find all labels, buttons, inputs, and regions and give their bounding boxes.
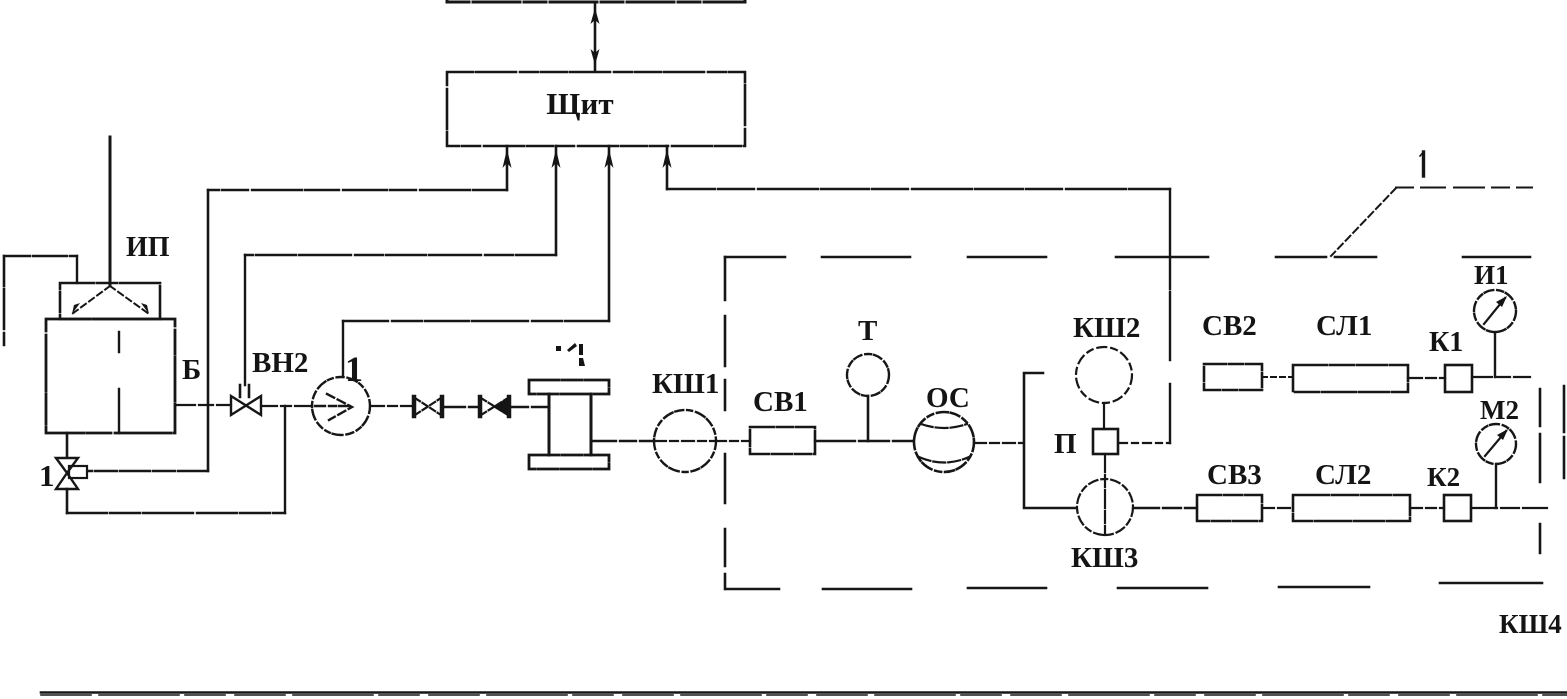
gauge М2 <box>1476 424 1516 508</box>
valve К1 <box>1445 365 1472 392</box>
svg-text:СЛ2: СЛ2 <box>1315 459 1371 491</box>
label 1 with leader (enclosure) <box>1331 152 1532 256</box>
svg-text:СВ1: СВ1 <box>753 386 808 418</box>
wire П to enclosure wire <box>1119 442 1170 444</box>
switch П <box>1093 429 1118 454</box>
shut-off valve V2 <box>480 397 509 416</box>
feed pipe into hopper <box>109 137 112 285</box>
svg-text:КШ3: КШ3 <box>1071 542 1138 574</box>
svg-text:И1: И1 <box>1474 260 1509 290</box>
gas meter КШ2 <box>1076 347 1132 429</box>
spray arrows in hopper <box>72 286 149 314</box>
dashed enclosure box <box>725 257 1564 589</box>
manifold bracket <box>1024 373 1076 508</box>
pipe К2 to right edge <box>1471 507 1547 509</box>
svg-text:П: П <box>1054 428 1077 460</box>
svg-text:Щит: Щит <box>546 86 613 121</box>
separator ОС <box>914 412 974 472</box>
arrow 4 into Щит (from П wire) <box>663 146 672 189</box>
pipe tank to ВН2 <box>175 404 231 406</box>
restrictor СВ1 <box>750 427 815 454</box>
arrow 2 into Щит (from ВН2 wire) <box>552 146 561 255</box>
pipe СВ3 to СЛ2 <box>1262 507 1293 509</box>
wire from valve 1 to Щит <box>88 190 507 471</box>
pipe КШ3 to СВ3 <box>1133 507 1197 509</box>
pipe ОС to manifold <box>974 442 1023 444</box>
restrictor СВ2 <box>1204 364 1262 390</box>
svg-text:ОС: ОС <box>926 382 970 414</box>
pipe ВН2 to pump <box>261 405 312 407</box>
pipe К1 to right <box>1472 376 1530 378</box>
svg-text:1: 1 <box>345 349 363 389</box>
svg-text:К1: К1 <box>1429 327 1463 358</box>
svg-text:СЛ1: СЛ1 <box>1316 310 1372 342</box>
pipe pump to valves <box>370 405 413 407</box>
pipe СЛ2 to К2 <box>1410 507 1444 509</box>
panel box Щит <box>447 72 745 146</box>
bottom border rule <box>41 691 1567 694</box>
label Ч (degraded) <box>556 343 585 366</box>
pipe spool to КШ1 <box>592 440 654 442</box>
spool piece Ч (flanged column) <box>529 380 609 469</box>
pipe СВ1 to ОС <box>815 440 914 442</box>
capillary СЛ2 <box>1293 495 1410 521</box>
svg-text:КШ4: КШ4 <box>1499 609 1562 639</box>
svg-text:КШ2: КШ2 <box>1073 312 1140 344</box>
svg-text:СВ2: СВ2 <box>1202 310 1257 342</box>
valve К2 <box>1444 495 1471 521</box>
valve ВН2 <box>231 385 261 415</box>
top box (computer, cut off at top edge) <box>447 0 745 2</box>
restrictor СВ3 <box>1197 495 1262 521</box>
wire from pump to Щит <box>343 321 609 377</box>
inlet pipe from left edge <box>4 256 77 345</box>
svg-text:Т: Т <box>858 315 877 347</box>
shut-off valve V1 <box>414 397 442 416</box>
svg-text:ИП: ИП <box>126 232 170 263</box>
capillary СЛ1 <box>1293 365 1408 392</box>
wire from ВН2 to Щит <box>245 255 556 385</box>
gas meter КШ3 <box>1077 454 1133 535</box>
svg-text:Б: Б <box>182 354 201 386</box>
arrow 3 into Щит (from pump wire) <box>605 146 614 321</box>
svg-text:К2: К2 <box>1427 462 1460 492</box>
valve 1 (solenoid drain valve) <box>56 458 87 489</box>
tank Б body <box>46 319 175 433</box>
pipe valve to spool Ч <box>510 406 549 408</box>
bidirectional arrow between top box and Щит <box>591 3 600 71</box>
svg-text:М2: М2 <box>1480 395 1519 425</box>
thermometer Т <box>847 354 889 441</box>
pipe between valves <box>443 406 479 408</box>
arrow 1 into Щит (from valve 1 wire) <box>503 146 512 190</box>
gauge И1 <box>1474 290 1516 377</box>
pipe КШ1 to СВ1 <box>716 440 750 442</box>
svg-text:ВН2: ВН2 <box>252 347 308 379</box>
pump (fan) circle <box>312 377 370 435</box>
wire from П to Щит <box>667 189 1170 443</box>
hopper on tank Б <box>60 283 160 319</box>
svg-text:1: 1 <box>39 458 55 493</box>
svg-text:СВ3: СВ3 <box>1207 459 1262 491</box>
pipe СЛ1 to К1 <box>1408 377 1445 379</box>
flow meter КШ1 <box>654 410 716 472</box>
pipe СВ2 to СЛ1 <box>1262 376 1293 378</box>
drain pipe from tank bottom through valve 1 <box>67 406 285 513</box>
svg-text:КШ1: КШ1 <box>652 368 719 400</box>
